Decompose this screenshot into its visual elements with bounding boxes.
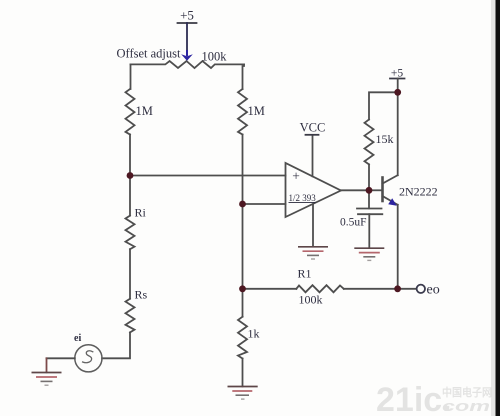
ground (capacitor) bbox=[354, 248, 384, 260]
svg-text:ei: ei bbox=[74, 333, 81, 344]
resistor Rs bbox=[126, 299, 135, 333]
resistor R1 100k bbox=[296, 285, 344, 292]
wire inverting input bbox=[243, 203, 286, 205]
svg-text:100k: 100k bbox=[202, 50, 228, 64]
wire Ri to Rs bbox=[129, 249, 131, 299]
svg-text:+5: +5 bbox=[180, 8, 194, 23]
svg-text:eo: eo bbox=[427, 283, 440, 298]
wire 1M left to node A bbox=[129, 135, 131, 176]
svg-text:21ic.: 21ic. bbox=[376, 381, 452, 416]
op-amp output wire bbox=[341, 189, 369, 191]
ground lead (ei) bbox=[46, 358, 48, 372]
wire base node down to capacitor bbox=[368, 190, 370, 208]
junction +5 node dot bbox=[394, 89, 401, 96]
svg-text:0.5uF: 0.5uF bbox=[340, 217, 367, 229]
wire node to collector bbox=[397, 92, 399, 175]
watermark 21ic bbox=[376, 381, 492, 416]
capacitor C1 bottom plate bbox=[358, 213, 382, 215]
power +5 top bar bbox=[178, 22, 197, 24]
wire 1k to ground bbox=[242, 359, 244, 387]
junction inverting input dot bbox=[239, 201, 246, 208]
junction base node dot bbox=[366, 187, 373, 194]
transistor Q1 base bar bbox=[381, 178, 384, 202]
junction R1 node dot bbox=[239, 285, 246, 292]
transistor emitter arrow bbox=[388, 198, 397, 206]
svg-text:com: com bbox=[442, 398, 490, 415]
op-amp ground pin wire bbox=[312, 204, 314, 246]
wire +5 bar to node bbox=[397, 79, 399, 93]
junction output node dot bbox=[394, 285, 401, 292]
capacitor C1 top plate bbox=[357, 208, 382, 210]
+5 right bar bbox=[390, 78, 405, 80]
wire R1 to output node bbox=[344, 288, 398, 290]
wire node A down to Ri bbox=[129, 176, 131, 216]
svg-text:Offset adjust: Offset adjust bbox=[117, 47, 182, 61]
transistor Q1 base wire bbox=[369, 189, 382, 191]
ground (op-amp) bbox=[298, 247, 328, 259]
wire R1 node to resistor R1 bbox=[243, 288, 297, 290]
svg-text:+5: +5 bbox=[391, 68, 403, 80]
wire Rs down to source bbox=[102, 332, 130, 358]
wire pot right corner down to 1M right bbox=[243, 64, 245, 89]
source ei circle bbox=[75, 345, 102, 372]
svg-text:R1: R1 bbox=[298, 267, 312, 281]
junction node A dot bbox=[127, 172, 134, 179]
capacitor to ground wire bbox=[368, 214, 370, 248]
svg-text:100k: 100k bbox=[299, 293, 323, 307]
VCC bar bbox=[306, 134, 319, 136]
wire noninverting input bbox=[130, 175, 286, 177]
wire R1 node down to 1k bbox=[242, 289, 244, 317]
svg-text:1M: 1M bbox=[136, 104, 153, 118]
transistor Q1 emitter bbox=[383, 196, 398, 205]
svg-text:1/2 393: 1/2 393 bbox=[289, 193, 317, 203]
svg-text:+: + bbox=[292, 169, 300, 184]
svg-text:1k: 1k bbox=[248, 327, 260, 341]
resistor 1k bbox=[238, 317, 247, 359]
wire base node up to 15k bbox=[368, 164, 370, 190]
svg-text:Rs: Rs bbox=[135, 288, 148, 302]
wire emitter down to output node bbox=[397, 205, 399, 289]
op-amp VCC pin wire bbox=[312, 135, 314, 176]
wire inverting node down to R1 node bbox=[242, 204, 244, 289]
pot wiper arrow bbox=[181, 54, 193, 61]
wire +5 to pot wiper bbox=[186, 23, 188, 55]
svg-text:15k: 15k bbox=[376, 132, 394, 146]
transistor Q1 collector bbox=[383, 175, 398, 183]
pot wiper arrow stem bbox=[186, 50, 188, 56]
ground (1k) bbox=[228, 387, 258, 400]
svg-text:VCC: VCC bbox=[300, 121, 326, 135]
svg-text:中国电子网: 中国电子网 bbox=[442, 385, 492, 399]
svg-text:1M: 1M bbox=[248, 104, 265, 118]
right black border bar bbox=[496, 0, 500, 416]
op-amp U1 triangle bbox=[286, 163, 341, 217]
source ei sine squiggle bbox=[83, 351, 93, 363]
resistor Ri bbox=[126, 216, 135, 250]
wire pot left corner down to 1M left bbox=[130, 64, 132, 89]
resistor 1M left bbox=[126, 89, 135, 135]
wire output node to terminal bbox=[398, 288, 417, 290]
svg-text:2N2222: 2N2222 bbox=[399, 185, 438, 199]
resistor 1M right bbox=[238, 89, 247, 135]
svg-text:Ri: Ri bbox=[135, 206, 147, 220]
resistor 15k bbox=[365, 120, 374, 165]
wire 15k top to +5 node bbox=[369, 92, 398, 119]
wire 1M right down to inverting node bbox=[242, 135, 244, 205]
potentiometer 100k body bbox=[131, 61, 245, 68]
terminal eo circle bbox=[417, 285, 425, 293]
wire source to ground corner bbox=[47, 357, 75, 359]
ground (ei) bbox=[32, 373, 62, 386]
